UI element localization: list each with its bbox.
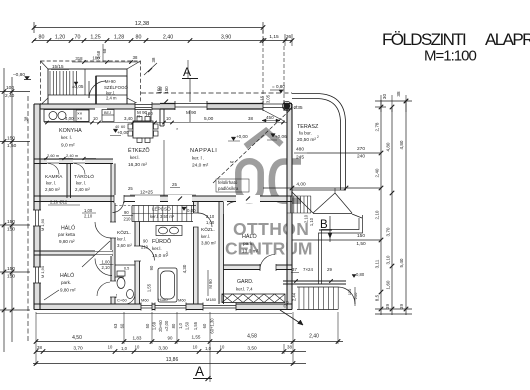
svg-text:M=1:100: M=1:100 bbox=[424, 48, 476, 65]
right chain ticks bbox=[379, 151, 384, 156]
svg-text:60: 60 bbox=[202, 323, 207, 328]
svg-text:2,10: 2,10 bbox=[206, 214, 215, 219]
svg-text:M60: M60 bbox=[141, 298, 150, 303]
ext stair door arc bbox=[338, 287, 355, 304]
watermark letter O bbox=[238, 161, 260, 200]
svg-text:TÁROLÓ: TÁROLÓ bbox=[74, 173, 94, 180]
halo1 door gap bbox=[110, 222, 116, 238]
kozl door arc bbox=[113, 202, 124, 213]
svg-text:FÜRDÕ: FÜRDÕ bbox=[152, 238, 171, 245]
svg-text:150: 150 bbox=[158, 86, 163, 94]
svg-text:270: 270 bbox=[357, 146, 365, 152]
terrace bottom edge bbox=[292, 189, 346, 191]
svg-text:=2,00: =2,00 bbox=[164, 320, 169, 331]
mid wall tick marks bbox=[178, 197, 182, 201]
svg-text:ker. l.: ker. l. bbox=[76, 181, 86, 186]
svg-text:M60: M60 bbox=[178, 298, 187, 303]
svg-text:+0,00: +0,00 bbox=[236, 134, 248, 139]
svg-text:ALAPRAJZ: ALAPRAJZ bbox=[485, 30, 530, 49]
exterior stair down arrow bbox=[280, 310, 303, 325]
svg-text:318: 318 bbox=[75, 56, 83, 61]
terrace corner column bbox=[284, 103, 290, 109]
svg-text:Ø35: Ø35 bbox=[294, 105, 303, 111]
house right wall dashed below terrace bbox=[291, 108, 293, 230]
furdo right wall bbox=[193, 202, 195, 305]
svg-text:50: 50 bbox=[145, 323, 150, 328]
svg-text:NAPPALI: NAPPALI bbox=[190, 148, 217, 154]
svg-text:4,30: 4,30 bbox=[182, 264, 187, 273]
svg-text:1,00: 1,00 bbox=[206, 220, 215, 225]
svg-text:ker.l.: ker.l. bbox=[117, 237, 126, 242]
svg-text:HÁLÓ: HÁLÓ bbox=[61, 225, 75, 232]
svg-text:3,60 m²: 3,60 m² bbox=[117, 243, 132, 248]
svg-text:2,40: 2,40 bbox=[309, 334, 319, 340]
right dim 150/1,50 with line bbox=[292, 239, 381, 241]
right exterior wall bbox=[286, 104, 288, 310]
svg-text:2,10: 2,10 bbox=[102, 265, 111, 270]
svg-text:60+1,30: 60+1,30 bbox=[210, 318, 215, 334]
svg-text:KÖZL.: KÖZL. bbox=[117, 229, 131, 236]
bottom dim line 1 (4,50 / 4,58 / 2,40) bbox=[36, 341, 343, 343]
svg-text:10: 10 bbox=[166, 116, 171, 121]
bottom wall windows bbox=[141, 303, 152, 311]
svg-text:LÉPCSÕ: LÉPCSÕ bbox=[152, 206, 171, 212]
porch hip roof diagonals bbox=[41, 61, 49, 69]
terrace side stair bbox=[286, 196, 288, 213]
tick on dashed roofline bbox=[162, 100, 168, 106]
svg-text:M 90: M 90 bbox=[186, 110, 197, 115]
furdo left wall bbox=[134, 222, 136, 305]
svg-text:–0,80: –0,80 bbox=[13, 72, 25, 78]
svg-text:0,00: 0,00 bbox=[187, 208, 196, 213]
svg-text:2,40: 2,40 bbox=[5, 93, 15, 99]
svg-text:fa bur.: fa bur. bbox=[299, 131, 312, 136]
svg-text:= 0,80: = 0,80 bbox=[272, 84, 285, 89]
svg-text:2,2b Ø12: 2,2b Ø12 bbox=[50, 200, 68, 205]
svg-text:felülírható: felülírható bbox=[218, 180, 238, 185]
svg-text:M 90: M 90 bbox=[208, 279, 213, 289]
svg-text:39: 39 bbox=[385, 304, 390, 309]
svg-text:ÉTKEZÕ: ÉTKEZÕ bbox=[128, 147, 150, 154]
svg-text:480: 480 bbox=[296, 147, 304, 153]
wall segment above kozl bbox=[111, 195, 135, 197]
svg-text:30: 30 bbox=[382, 94, 387, 100]
svg-text:90: 90 bbox=[124, 210, 129, 215]
roof hip right diagonals bbox=[313, 193, 335, 213]
porch entry stair treads bbox=[49, 71, 51, 95]
svg-text:C+60: C+60 bbox=[117, 298, 127, 303]
left eaves dashed vertical line bbox=[27, 96, 29, 342]
terrace outer edge bbox=[292, 94, 346, 191]
divider door diagonal bbox=[82, 241, 110, 267]
porch roof overhang dashed rect bbox=[41, 61, 141, 105]
terrace door leaf diagonal bbox=[263, 110, 284, 121]
svg-text:90: 90 bbox=[148, 111, 153, 116]
svg-text:3,70: 3,70 bbox=[386, 227, 391, 236]
svg-text:150: 150 bbox=[7, 227, 15, 233]
svg-text:2,10: 2,10 bbox=[375, 210, 380, 219]
kozl right wall bbox=[218, 202, 220, 305]
kamra door arc bbox=[47, 159, 59, 165]
svg-text:29: 29 bbox=[327, 267, 332, 272]
bottom dim line 3 (13,86) bbox=[33, 363, 306, 365]
svg-text:BEJ: BEJ bbox=[104, 111, 111, 115]
watermark chevron roof bbox=[246, 131, 282, 147]
svg-text:sz: sz bbox=[230, 160, 234, 164]
svg-text:+0,00: +0,00 bbox=[117, 130, 129, 135]
lepcso stairs bbox=[132, 205, 196, 207]
svg-text:1,55: 1,55 bbox=[193, 321, 198, 330]
svg-text:B: B bbox=[320, 219, 328, 231]
svg-text:90: 90 bbox=[143, 239, 148, 244]
svg-text:10: 10 bbox=[135, 345, 140, 350]
svg-text:25: 25 bbox=[128, 186, 133, 191]
svg-text:3,80 m²: 3,80 m² bbox=[201, 241, 216, 246]
furdo door left bbox=[140, 246, 155, 261]
wc door arc bbox=[125, 294, 135, 304]
svg-text:13,86: 13,86 bbox=[166, 357, 179, 363]
svg-text:40: 40 bbox=[115, 125, 119, 129]
dimension line total width 12,38 bbox=[34, 27, 263, 29]
svg-text:8,5: 8,5 bbox=[375, 294, 380, 301]
svg-text:3,11: 3,11 bbox=[375, 259, 380, 268]
svg-text:38: 38 bbox=[37, 345, 42, 350]
svg-text:ker.l.: ker.l. bbox=[201, 234, 210, 239]
svg-text:××: ×× bbox=[77, 116, 83, 121]
svg-text:3,68: 3,68 bbox=[96, 50, 101, 59]
svg-text:1,10: 1,10 bbox=[309, 217, 314, 226]
svg-text:3,50: 3,50 bbox=[247, 346, 257, 352]
svg-text:2,40 m: 2,40 m bbox=[66, 153, 79, 158]
svg-text:100: 100 bbox=[6, 85, 14, 91]
svg-text:HÁLÓ: HÁLÓ bbox=[60, 272, 74, 279]
konyha window in top wall bbox=[135, 103, 152, 110]
bottom extension verticals bbox=[35, 312, 37, 344]
svg-text:M 1,90: M 1,90 bbox=[40, 218, 45, 231]
svg-text:2,40: 2,40 bbox=[375, 168, 380, 177]
konyha fridge bbox=[135, 110, 151, 122]
svg-text:padlósíkra: padlósíkra bbox=[218, 186, 239, 191]
svg-text:110: 110 bbox=[347, 288, 352, 295]
svg-text:±0,05: ±0,05 bbox=[72, 84, 84, 89]
svg-text:70: 70 bbox=[75, 35, 81, 41]
svg-text:M180: M180 bbox=[206, 297, 217, 302]
top wall west part bbox=[34, 103, 160, 105]
wall between halo rooms bbox=[34, 250, 113, 252]
svg-text:KAMRA: KAMRA bbox=[45, 174, 63, 180]
svg-text:M 1,90: M 1,90 bbox=[40, 265, 45, 278]
svg-text:park.: park. bbox=[61, 280, 71, 285]
svg-text:2,4 m: 2,4 m bbox=[106, 96, 117, 101]
svg-text:150: 150 bbox=[164, 86, 169, 94]
svg-text:1,00: 1,00 bbox=[102, 260, 111, 265]
svg-text:1,50: 1,50 bbox=[185, 321, 190, 330]
svg-text:ker. l .: ker. l . bbox=[192, 156, 204, 161]
svg-text:1,28: 1,28 bbox=[114, 35, 124, 41]
mid wall door white gaps bbox=[168, 195, 192, 203]
exterior stair bottom right bbox=[297, 286, 338, 288]
svg-text:150: 150 bbox=[7, 136, 15, 142]
szelfogo door arc bbox=[89, 81, 106, 98]
svg-text:39: 39 bbox=[399, 304, 404, 309]
svg-text:16,30 m²: 16,30 m² bbox=[128, 162, 147, 168]
left wall window gaps bbox=[33, 210, 41, 226]
svg-text:9,0 m²: 9,0 m² bbox=[61, 143, 75, 149]
svg-text:A: A bbox=[183, 65, 191, 79]
svg-text:ker.l.: ker.l. bbox=[130, 155, 140, 160]
divider door arc bbox=[95, 259, 112, 276]
svg-text:12×25: 12×25 bbox=[140, 190, 153, 195]
svg-text:150: 150 bbox=[357, 233, 365, 239]
halo2 door arc bbox=[97, 282, 111, 296]
bottom sill line bbox=[36, 313, 292, 315]
svg-text:3,90: 3,90 bbox=[221, 35, 231, 41]
svg-text:SZÉLFOGÓ: SZÉLFOGÓ bbox=[104, 85, 128, 90]
svg-text:2,40: 2,40 bbox=[163, 35, 173, 41]
svg-text:240: 240 bbox=[357, 154, 365, 160]
svg-text:450: 450 bbox=[266, 115, 274, 120]
svg-text:3,10: 3,10 bbox=[386, 255, 391, 264]
svg-text:1,69: 1,69 bbox=[152, 321, 157, 330]
wall under kamra/tarolo bbox=[34, 195, 113, 197]
svg-text:KONYHA: KONYHA bbox=[59, 128, 82, 134]
door arc halo3 bbox=[224, 202, 237, 215]
svg-text:90: 90 bbox=[149, 265, 154, 270]
svg-text:38: 38 bbox=[151, 57, 156, 62]
porch inner landing lines bbox=[48, 94, 127, 96]
svg-text:150: 150 bbox=[7, 266, 15, 272]
svg-text:38: 38 bbox=[133, 55, 138, 60]
svg-text:10: 10 bbox=[93, 116, 98, 121]
svg-text:+0,06: +0,06 bbox=[275, 134, 287, 139]
svg-text:3,30: 3,30 bbox=[158, 346, 168, 352]
svg-text:M 90: M 90 bbox=[137, 110, 148, 115]
svg-text:4,50: 4,50 bbox=[72, 335, 82, 341]
bottom exterior wall bbox=[34, 303, 292, 305]
right dim 270/240 with line bbox=[307, 152, 381, 154]
door arc halo1 bbox=[95, 222, 111, 238]
roof ridge dashed line bbox=[141, 92, 292, 94]
kamra/tarolo divider bbox=[66, 164, 68, 199]
svg-text:37: 37 bbox=[292, 267, 297, 272]
svg-text:1,25: 1,25 bbox=[90, 35, 100, 41]
bej boxes bbox=[102, 110, 114, 122]
svg-text:10: 10 bbox=[193, 345, 198, 350]
halo2 corner diagonal bbox=[44, 290, 59, 300]
svg-text:par ketta: par ketta bbox=[58, 232, 76, 237]
kozl right door gap bbox=[193, 213, 199, 227]
svg-text:10: 10 bbox=[220, 345, 225, 350]
etkezo table bbox=[133, 121, 153, 138]
porch slab bbox=[48, 69, 127, 105]
roof edge right outline bbox=[322, 218, 360, 284]
svg-text:9,80 m²: 9,80 m² bbox=[60, 288, 76, 293]
svg-text:ker.l.: ker.l. bbox=[152, 246, 162, 251]
svg-text:A: A bbox=[195, 364, 204, 379]
svg-text:38: 38 bbox=[287, 345, 292, 350]
svg-text:4,80: 4,80 bbox=[399, 140, 404, 149]
svg-text:6,5: 6,5 bbox=[124, 267, 129, 271]
svg-text:KÖZL.: KÖZL. bbox=[201, 226, 215, 233]
svg-text:2,60 m²: 2,60 m² bbox=[45, 187, 60, 192]
svg-text:245: 245 bbox=[296, 155, 304, 161]
washbasin counter bbox=[156, 226, 182, 236]
right dimension chain verticals bbox=[380, 100, 382, 315]
left dimension chain verticals bbox=[3, 68, 5, 352]
konyha sinks bbox=[49, 112, 57, 120]
svg-text:210: 210 bbox=[141, 245, 149, 250]
svg-text:10: 10 bbox=[108, 345, 113, 350]
nappali left wall stub bbox=[159, 109, 161, 126]
svg-text:4,58: 4,58 bbox=[247, 334, 257, 340]
svg-text:210: 210 bbox=[353, 292, 358, 299]
svg-text:4,80: 4,80 bbox=[386, 142, 391, 151]
right top small ticks 30/38 bbox=[375, 100, 412, 102]
svg-text:60: 60 bbox=[120, 323, 125, 328]
svg-text:25: 25 bbox=[172, 182, 177, 187]
bottom dim line 2 bbox=[36, 351, 306, 353]
top wall east (nappali) with window bbox=[160, 103, 292, 105]
dimension top right 1,15 / 36 bbox=[263, 40, 292, 42]
konyha counter bbox=[44, 110, 89, 122]
svg-text:1,00: 1,00 bbox=[84, 208, 93, 213]
svg-text:4,00: 4,00 bbox=[296, 182, 306, 188]
svg-text:2: 2 bbox=[166, 251, 168, 255]
svg-text:2,10: 2,10 bbox=[84, 214, 93, 219]
bathtub bbox=[158, 268, 177, 302]
szelfogo room walls bbox=[96, 76, 127, 105]
kozl right door arc bbox=[198, 213, 212, 227]
svg-text:63: 63 bbox=[113, 323, 118, 328]
svg-text:HÁLÓ: HÁLÓ bbox=[242, 233, 257, 240]
svg-text:1,55: 1,55 bbox=[192, 335, 201, 340]
svg-text:5,00: 5,00 bbox=[204, 116, 214, 122]
svg-text:13,0 m²: 13,0 m² bbox=[242, 249, 259, 255]
svg-text:3,70: 3,70 bbox=[73, 346, 83, 352]
svg-text:9,80 m²: 9,80 m² bbox=[59, 239, 75, 244]
svg-text:1,20: 1,20 bbox=[55, 35, 65, 41]
kozl stair dashes bbox=[115, 205, 132, 207]
door gap halo3-gard bbox=[260, 264, 276, 271]
dimension chain top (80/1,20/70/1,25/1,28/80/2,40/3,90) bbox=[33, 40, 263, 42]
svg-text:0,80: 0,80 bbox=[356, 272, 365, 277]
svg-text:M+90: M+90 bbox=[105, 79, 116, 84]
svg-text:1,55: 1,55 bbox=[147, 283, 152, 292]
svg-text:FÖLDSZINTI: FÖLDSZINTI bbox=[382, 30, 466, 49]
svg-text:150: 150 bbox=[7, 219, 15, 225]
svg-text:ker. l.: ker. l. bbox=[46, 181, 56, 186]
svg-text:36: 36 bbox=[286, 34, 292, 40]
terrace door gap in top wall bbox=[263, 102, 284, 111]
nappali-etkezo divider dots bbox=[163, 140, 165, 196]
svg-text:210: 210 bbox=[124, 217, 132, 222]
wall under konyha bbox=[34, 158, 113, 160]
svg-text:ker.l. 7,4: ker.l. 7,4 bbox=[236, 287, 253, 292]
svg-text:1,50: 1,50 bbox=[7, 143, 17, 149]
wall under halo3 bbox=[224, 264, 293, 266]
svg-text:2,44: 2,44 bbox=[292, 292, 297, 301]
terrace dim 4,00 line bbox=[263, 187, 381, 189]
svg-text:2,10: 2,10 bbox=[304, 214, 309, 223]
svg-text:2,78: 2,78 bbox=[375, 122, 380, 131]
svg-text:ker.l. 3,50 m²: ker.l. 3,50 m² bbox=[150, 214, 175, 219]
svg-text:15/15: 15/15 bbox=[52, 64, 64, 69]
svg-text:12,38: 12,38 bbox=[135, 21, 150, 27]
svg-text:150: 150 bbox=[7, 274, 15, 280]
svg-text:7×24: 7×24 bbox=[303, 267, 313, 272]
vertical dashed thru terrace bbox=[262, 30, 264, 104]
svg-text:90: 90 bbox=[168, 336, 173, 341]
svg-text:38: 38 bbox=[396, 91, 401, 97]
wall fills (scan gray) bbox=[34, 104, 40, 310]
svg-text:ker. l.: ker. l. bbox=[61, 135, 72, 140]
svg-text:4,00: 4,00 bbox=[65, 116, 74, 121]
svg-text:3,40: 3,40 bbox=[124, 116, 133, 121]
porch dim 3,18/1,80/38 bbox=[72, 61, 140, 63]
svg-text:1,0: 1,0 bbox=[205, 346, 211, 351]
kozl door gap bbox=[114, 195, 124, 203]
svg-text:1,60: 1,60 bbox=[386, 280, 391, 289]
svg-text:60: 60 bbox=[121, 125, 125, 129]
svg-text:5,40: 5,40 bbox=[399, 258, 404, 267]
konyha stove bbox=[76, 110, 89, 122]
wc walls bbox=[115, 264, 135, 266]
watermark letter C bbox=[272, 162, 301, 201]
gard railing X-hatch bbox=[222, 294, 285, 303]
svg-text:24,0 m²: 24,0 m² bbox=[192, 163, 209, 169]
svg-text:80: 80 bbox=[171, 323, 176, 328]
svg-text:1,15: 1,15 bbox=[260, 95, 265, 104]
corridor wall vertical bbox=[110, 164, 112, 305]
svg-text:TERASZ: TERASZ bbox=[297, 124, 319, 130]
svg-text:2,60 m: 2,60 m bbox=[47, 153, 60, 158]
nappali diag dashed bbox=[213, 110, 290, 183]
svg-text:1,0: 1,0 bbox=[178, 322, 183, 328]
left exterior wall bbox=[33, 104, 35, 310]
svg-text:1,15: 1,15 bbox=[269, 34, 279, 40]
svg-text:80: 80 bbox=[39, 35, 45, 41]
svg-text:2,40 m²: 2,40 m² bbox=[75, 187, 90, 192]
svg-text:38: 38 bbox=[248, 116, 253, 121]
svg-text:1,0: 1,0 bbox=[121, 346, 127, 351]
svg-text:1,50: 1,50 bbox=[356, 241, 366, 247]
svg-text:20,50 m²: 20,50 m² bbox=[297, 137, 316, 143]
svg-text:1,83: 1,83 bbox=[133, 336, 142, 341]
tarolo door arc bbox=[73, 159, 85, 165]
wall mid horizontal east part bbox=[160, 195, 292, 197]
svg-text:2: 2 bbox=[317, 135, 319, 139]
wc fixtures bbox=[117, 278, 125, 289]
divider door gap bbox=[95, 250, 112, 256]
svg-text:2b+60: 2b+60 bbox=[158, 319, 163, 331]
svg-text:park.: park. bbox=[243, 241, 254, 247]
svg-text:80: 80 bbox=[136, 35, 142, 41]
svg-text:3,05: 3,05 bbox=[266, 94, 271, 103]
svg-text:H180: H180 bbox=[158, 297, 168, 302]
svg-text:GARD.: GARD. bbox=[237, 279, 253, 285]
